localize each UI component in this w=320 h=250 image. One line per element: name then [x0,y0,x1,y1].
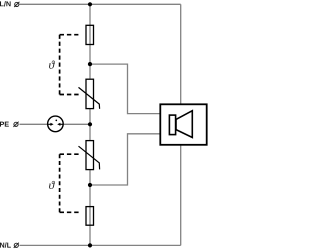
node A (upper monitor tap) [88,62,92,66]
wire top rail L/N [20,3,181,5]
wire main vertical rail upper (through fuse F1) [89,4,91,78]
wire PE terminal to spark gap [20,123,48,125]
terminal N/L [14,243,19,248]
label L/N [0,1,11,6]
node PE junction [88,122,92,126]
acoustic alarm box U1 [160,104,206,145]
wire upper step from node A to alarm box [90,64,160,114]
wire main vertical rail lower (through fuse F2) [89,170,91,246]
fuse F2 (lower disconnector) [86,207,94,226]
speaker symbol [169,111,192,138]
spark gap / gas discharge tube on PE [48,116,64,132]
wire spark gap to PE node [63,123,90,125]
terminal PE [13,122,18,127]
node bottom rail junction [88,243,92,247]
label theta upper [49,61,55,69]
node top rail junction [88,2,92,6]
label theta lower [49,181,55,189]
wire bottom rail N/L [20,244,181,246]
varistor RV2 [79,141,100,170]
varistor RV1 [79,79,100,109]
thermal disconnect linkage lower (dashed) [60,154,81,212]
wire right drop from top rail to alarm box [180,4,182,104]
wire lower step from node B to alarm box [90,134,160,185]
thermal disconnect linkage upper (dashed) [60,35,81,95]
fuse F1 (upper disconnector) [86,25,94,44]
label PE [0,122,9,127]
wire main vertical rail middle (between varistors) [89,109,91,140]
label N/L [0,242,11,247]
node B (lower monitor tap) [88,183,92,187]
wire right rise from bottom rail to alarm box [180,145,182,246]
terminal L/N [14,2,19,7]
